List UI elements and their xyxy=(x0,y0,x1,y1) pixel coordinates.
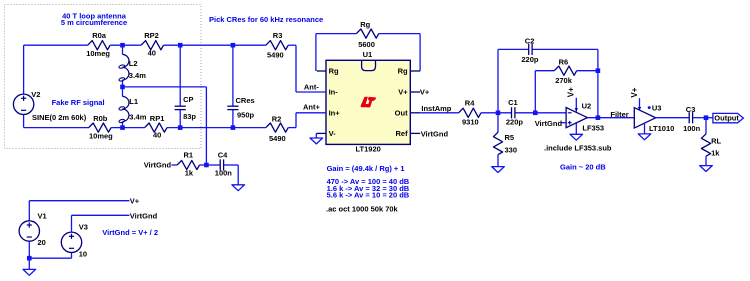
svg-text:10meg: 10meg xyxy=(89,132,113,141)
svg-text:1k: 1k xyxy=(185,168,194,177)
svg-text:9310: 9310 xyxy=(462,118,479,127)
svg-text:40: 40 xyxy=(153,130,161,139)
svg-text:In+: In+ xyxy=(329,109,341,118)
svg-text:InstAmp: InstAmp xyxy=(421,104,451,113)
svg-text:V-: V- xyxy=(329,129,337,138)
svg-text:Rg: Rg xyxy=(360,20,370,29)
svg-text:R0a: R0a xyxy=(92,31,107,40)
svg-text:Filter: Filter xyxy=(610,110,628,119)
svg-text:V+: V+ xyxy=(130,197,140,206)
svg-text:C2: C2 xyxy=(525,37,535,46)
svg-text:C4: C4 xyxy=(218,151,228,160)
svg-text:Ref: Ref xyxy=(396,129,409,138)
svg-text:VirtGnd: VirtGnd xyxy=(130,211,158,220)
svg-text:Ant+: Ant+ xyxy=(303,103,320,112)
svg-text:Fake RF signal: Fake RF signal xyxy=(52,98,105,107)
svg-text:40: 40 xyxy=(148,49,156,58)
svg-text:1k: 1k xyxy=(711,148,720,157)
svg-text:3.4m: 3.4m xyxy=(129,113,146,122)
svg-text:U1: U1 xyxy=(363,50,373,59)
svg-text:.include LF353.sub: .include LF353.sub xyxy=(544,144,612,153)
svg-text:83p: 83p xyxy=(183,112,196,121)
svg-text:C1: C1 xyxy=(508,98,518,107)
svg-text:5 m circumference: 5 m circumference xyxy=(61,18,127,27)
svg-text:V+: V+ xyxy=(630,87,639,97)
svg-text:R2: R2 xyxy=(272,114,282,123)
svg-text:10: 10 xyxy=(79,249,87,258)
svg-text:V3: V3 xyxy=(79,223,88,232)
svg-text:5490: 5490 xyxy=(269,134,286,143)
svg-text:R1: R1 xyxy=(184,151,194,160)
svg-text:V1: V1 xyxy=(38,212,47,221)
svg-text:CP: CP xyxy=(183,95,193,104)
svg-text:R5: R5 xyxy=(505,133,515,142)
svg-text:Gain = (49.4k / Rg) + 1: Gain = (49.4k / Rg) + 1 xyxy=(327,164,405,173)
svg-text:V2: V2 xyxy=(31,90,40,99)
svg-text:LF353: LF353 xyxy=(582,123,604,132)
svg-text:Gain ~ 20 dB: Gain ~ 20 dB xyxy=(560,163,606,172)
svg-text:10meg: 10meg xyxy=(86,49,110,58)
svg-text:VirtGnd: VirtGnd xyxy=(535,119,563,128)
svg-text:20: 20 xyxy=(38,238,46,247)
svg-text:330: 330 xyxy=(505,145,518,154)
svg-text:100n: 100n xyxy=(215,168,233,177)
svg-text:RP1: RP1 xyxy=(150,114,165,123)
svg-text:5600: 5600 xyxy=(358,40,375,49)
svg-text:L1: L1 xyxy=(129,97,138,106)
svg-text:3.4m: 3.4m xyxy=(129,71,146,80)
svg-text:LT1920: LT1920 xyxy=(356,144,381,153)
svg-text:VirtGnd: VirtGnd xyxy=(144,161,172,170)
svg-text:RL: RL xyxy=(711,136,721,145)
svg-text:Pick CRes for 60 kHz resonance: Pick CRes for 60 kHz resonance xyxy=(209,15,323,24)
svg-text:C3: C3 xyxy=(686,105,696,114)
svg-text:U3: U3 xyxy=(652,104,662,113)
svg-text:VirtGnd: VirtGnd xyxy=(421,129,449,138)
svg-text:V+: V+ xyxy=(420,87,430,96)
svg-text:R6: R6 xyxy=(559,58,569,67)
svg-text:L2: L2 xyxy=(129,59,138,68)
svg-text:Rg: Rg xyxy=(398,67,408,76)
svg-text:Output: Output xyxy=(714,113,739,122)
svg-text:220p: 220p xyxy=(506,117,524,126)
svg-text:VirtGnd = V+ / 2: VirtGnd = V+ / 2 xyxy=(102,228,158,237)
svg-text:CRes: CRes xyxy=(236,96,255,105)
svg-text:220p: 220p xyxy=(521,55,539,64)
svg-text:LT1010: LT1010 xyxy=(649,124,674,133)
svg-text:.ac oct 1000 50k 70k: .ac oct 1000 50k 70k xyxy=(326,204,399,213)
svg-text:Rg: Rg xyxy=(329,67,339,76)
svg-text:In-: In- xyxy=(329,88,339,97)
svg-text:U2: U2 xyxy=(582,102,592,111)
svg-text:Ant-: Ant- xyxy=(304,82,319,91)
svg-text:5490: 5490 xyxy=(267,51,284,60)
svg-text:RP2: RP2 xyxy=(144,31,159,40)
svg-text:5.6 k -> Av = 10 = 20 dB: 5.6 k -> Av = 10 = 20 dB xyxy=(327,190,410,199)
svg-text:R4: R4 xyxy=(465,98,475,107)
svg-text:950p: 950p xyxy=(237,111,255,120)
svg-text:R0b: R0b xyxy=(93,114,108,123)
svg-text:R3: R3 xyxy=(273,31,283,40)
svg-text:Out: Out xyxy=(395,109,408,118)
svg-text:SINE(0 2m 60k): SINE(0 2m 60k) xyxy=(32,113,87,122)
svg-text:270k: 270k xyxy=(555,76,573,85)
svg-text:V+: V+ xyxy=(398,88,408,97)
svg-text:V+: V+ xyxy=(567,87,576,97)
svg-text:100n: 100n xyxy=(683,124,701,133)
